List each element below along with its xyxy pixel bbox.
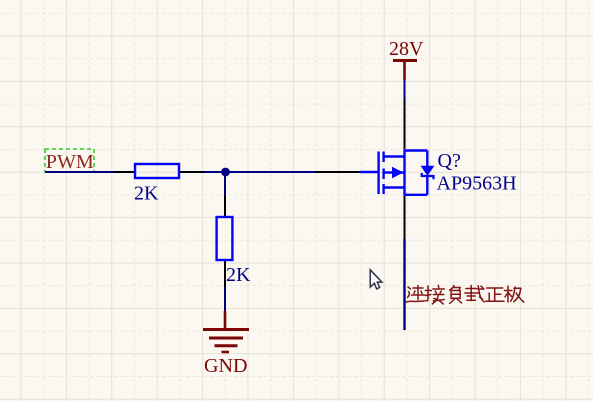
svg-text:2K: 2K [226, 264, 251, 286]
wire 28V to drain pin [404, 80, 406, 99]
gate lead [360, 171, 378, 173]
gate bar [377, 152, 379, 195]
drain stub [384, 155, 405, 157]
port PWM [45, 149, 94, 173]
svg-text:28V: 28V [389, 38, 424, 60]
body diode top link [405, 149, 428, 151]
svg-text:GND: GND [204, 355, 248, 377]
ground GND [203, 311, 249, 377]
body diode bottom link [405, 194, 428, 196]
diode triangle [421, 166, 435, 176]
wire PWM to R1 [45, 171, 113, 173]
channel segment top [382, 152, 384, 163]
resistor R1 2K [113, 164, 204, 178]
channel segment middle [382, 169, 384, 180]
power 28V [389, 38, 424, 80]
diode cathode bar [422, 173, 434, 179]
svg-text:PWM: PWM [46, 151, 94, 173]
resistor R2 2K [217, 196, 233, 288]
wire gate from junction [315, 171, 360, 173]
svg-text:Q?: Q? [438, 150, 461, 172]
channel segment bottom [382, 184, 384, 194]
transistor Q1 MOSFET [360, 99, 434, 239]
bottom stub [384, 186, 405, 188]
vertical source-drain line [403, 149, 405, 195]
wire R1 right to junction [204, 171, 315, 173]
node junction [221, 168, 230, 177]
svg-text:AP9563H: AP9563H [437, 173, 517, 195]
source pin [404, 196, 406, 239]
source arrow [392, 167, 404, 178]
diode branch upper [426, 151, 428, 167]
source stub with arrow line [384, 171, 405, 173]
wire R2 to ground [224, 287, 226, 311]
wire source down [403, 239, 405, 330]
svg-text:2K: 2K [134, 183, 159, 205]
drain pin [404, 99, 406, 149]
diode branch lower [426, 176, 428, 194]
annotation 连接负载正极 [406, 286, 524, 305]
wire junction down to R2 [224, 175, 226, 196]
cursor [370, 270, 382, 289]
